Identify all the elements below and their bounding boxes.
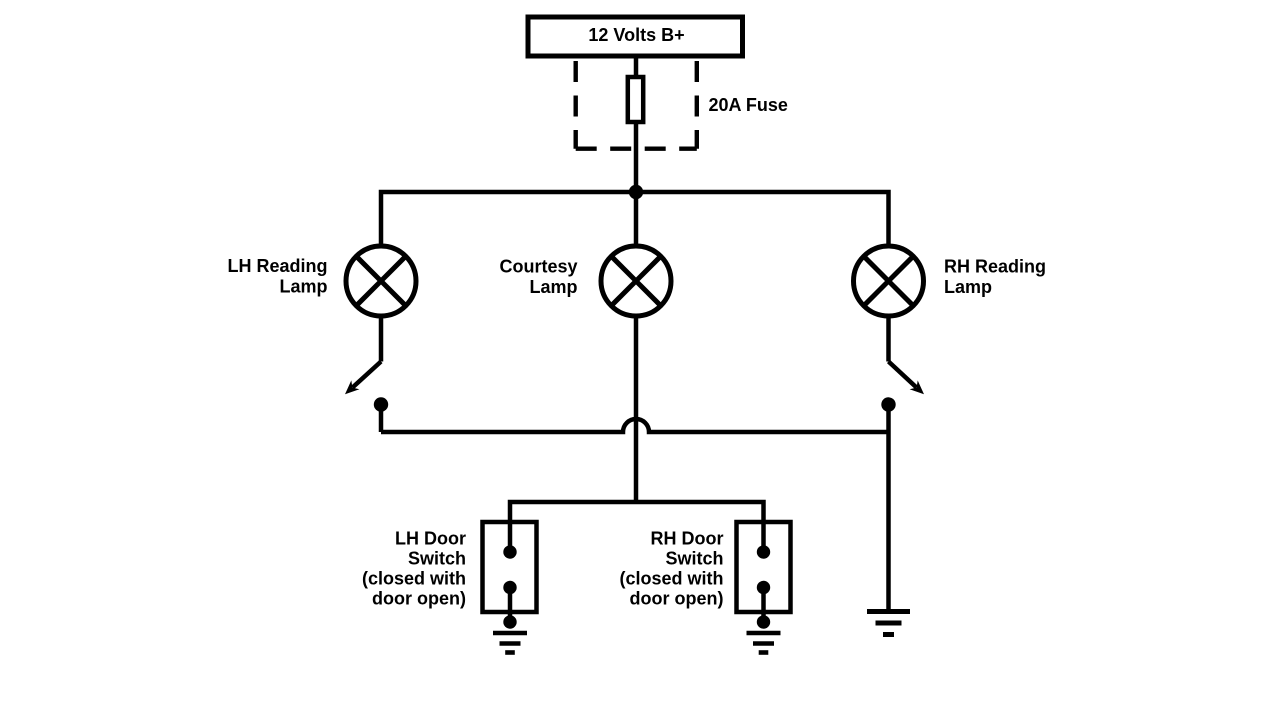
svg-text:(closed with: (closed with <box>619 569 723 589</box>
svg-text:door open): door open) <box>630 589 724 609</box>
svg-text:LH Reading: LH Reading <box>227 256 327 276</box>
svg-text:LH Door: LH Door <box>395 529 466 549</box>
svg-text:Switch: Switch <box>665 549 723 569</box>
svg-text:Lamp: Lamp <box>279 277 327 297</box>
svg-text:(closed with: (closed with <box>362 569 466 589</box>
svg-text:RH Door: RH Door <box>651 529 724 549</box>
svg-text:Lamp: Lamp <box>944 277 992 297</box>
svg-text:Courtesy: Courtesy <box>499 257 577 277</box>
svg-text:door open): door open) <box>372 589 466 609</box>
svg-text:Lamp: Lamp <box>529 277 577 297</box>
svg-text:Switch: Switch <box>408 549 466 569</box>
svg-text:20A Fuse: 20A Fuse <box>709 95 788 115</box>
svg-text:12 Volts B+: 12 Volts B+ <box>588 25 684 45</box>
svg-text:RH Reading: RH Reading <box>944 257 1046 277</box>
